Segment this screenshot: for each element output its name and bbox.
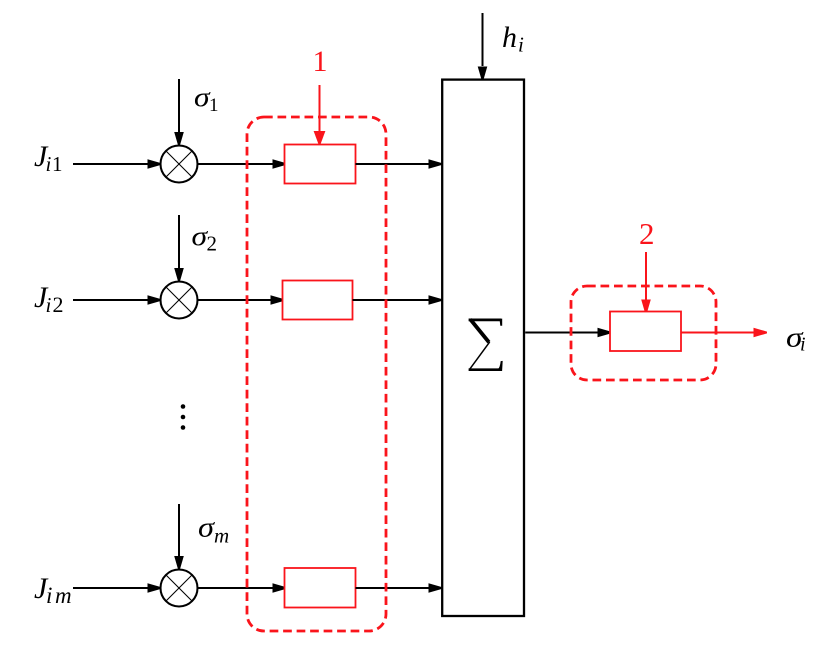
wire summation to box B4 [525,328,611,338]
red arrow 2 into box B4 [641,252,651,313]
svg-text:2: 2 [53,292,64,317]
wire box B3 to summation [356,583,443,593]
box B4 [610,312,681,352]
wire sigma_2 into multiplier M2 [174,215,184,282]
node sigma_i output label [786,322,806,356]
red wire box B4 to sigma_i output [681,328,767,338]
svg-text:1: 1 [313,45,328,78]
node sigma_2 label [192,221,218,256]
wire multiplier M3 to box B3 [198,583,287,593]
node J_i2 label [34,281,64,317]
box B3 [285,568,356,608]
svg-text:i: i [518,33,524,57]
svg-text:2: 2 [207,232,218,256]
svg-text:im: im [46,583,74,608]
svg-text:h: h [502,21,517,54]
vertical ellipsis dots [181,404,186,430]
wire box B2 to summation [353,295,443,305]
dashed group 1 enclosure [247,117,386,631]
svg-text:i: i [46,293,52,317]
wire J_i2 to multiplier M2 [73,295,161,305]
wire multiplier M1 to box B1 [198,159,287,169]
svg-text:2: 2 [639,216,655,251]
summation block [442,80,524,616]
node sigma_m label [198,513,229,548]
summation symbol [469,319,503,371]
svg-text:σ: σ [198,513,215,544]
node J_im label [34,572,74,608]
svg-text:m: m [214,524,229,548]
box B1 [285,145,356,184]
wire box B1 to summation [356,159,443,169]
wire J_im to multiplier M3 [73,583,161,593]
dashed group 2 enclosure [571,286,716,380]
wire multiplier M2 to box B2 [198,295,285,305]
wire sigma_m into multiplier M3 [174,504,184,570]
multiplier M3 (circle with X) [161,570,198,607]
multiplier M1 (circle with X) [161,146,198,183]
svg-text:1: 1 [209,95,219,116]
wire J_i1 to multiplier [73,159,161,169]
node sigma_1 label [194,82,219,116]
wire h_i into summation [478,13,488,80]
red arrow 1 into box B1 [314,85,326,145]
multiplier M2 (circle with X) [161,282,198,319]
svg-text:i: i [46,152,52,176]
svg-text:i: i [800,334,806,356]
box B2 [283,281,353,320]
svg-text:1: 1 [52,152,63,176]
node h_i label [502,21,524,57]
wire sigma_1 into multiplier M1 [174,79,184,146]
node J_i1 label [34,140,63,176]
